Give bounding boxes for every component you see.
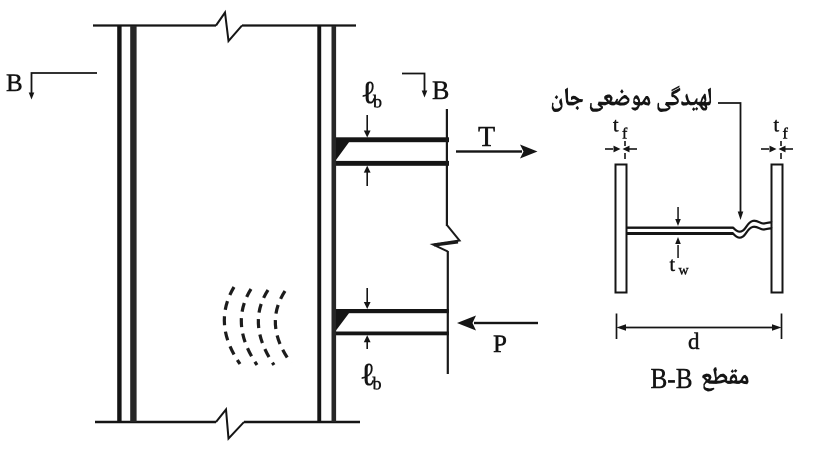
svg-text:T: T (478, 122, 495, 153)
svg-text:f: f (783, 126, 789, 143)
svg-text:B-B: B-B (651, 363, 693, 395)
svg-text:f: f (622, 126, 628, 143)
svg-text:b: b (373, 374, 382, 394)
svg-text:w: w (679, 264, 690, 279)
svg-text:t: t (774, 115, 780, 137)
svg-text:B: B (6, 70, 23, 97)
svg-text:b: b (373, 92, 382, 112)
svg-text:t: t (613, 115, 619, 137)
svg-text:t: t (670, 254, 676, 276)
svg-text:B: B (432, 76, 449, 105)
svg-text:P: P (493, 331, 507, 358)
svg-text:d: d (688, 329, 700, 354)
